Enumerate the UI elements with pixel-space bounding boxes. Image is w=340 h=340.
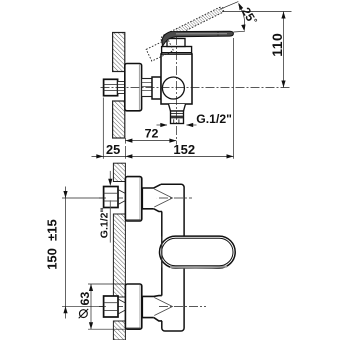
svg-text:152: 152 [173,142,195,157]
threaded pipe through wall [118,82,125,94]
collar at body inlet [152,77,161,99]
dim text dia 63 (rotated) [80,310,88,318]
top inlet centerline [99,197,192,199]
lever cap raised position (dotted outline) [146,39,173,61]
lever highlight [176,33,227,35]
wall section upper (hatched) [113,33,125,72]
G.1/2 leader bottom view [108,171,112,243]
dim 150 +-15 extensions [62,198,106,306]
svg-text:72: 72 [145,127,159,141]
outlet threaded tip G1/2 [171,111,184,124]
angle arc with arrows [238,3,245,32]
flange inner edge line [138,65,140,111]
valve sphere [162,77,184,99]
dim 110 extension top [222,11,292,13]
hex nut behind wall [104,79,118,95]
dim 25/152 extension lines [103,38,233,159]
horizontal centerline top view [101,87,292,89]
lever handle raised 25 deg (dotted, hatched) [161,7,224,44]
top inlet hex nut [104,187,126,208]
wall strip middle segment [113,214,125,297]
dim 72 line with arrows [125,139,176,143]
mixer body column [161,54,192,104]
svg-text:150 ±15: 150 ±15 [45,219,60,270]
bottom inlet cone chevron [154,298,172,316]
wall section lower (hatched) [113,101,125,138]
dim dia 63 extensions [88,284,125,329]
top escutcheon [125,177,141,221]
cartridge neck [167,39,185,47]
svg-text:63: 63 [78,292,92,306]
svg-text:G.1/2": G.1/2" [196,112,232,126]
G.1/2 leader at outlet [157,123,197,127]
angle ray 25 deg [220,2,239,10]
dim 110 line with arrows [281,12,285,88]
svg-text:25: 25 [106,142,120,157]
bottom inlet centerline [99,306,206,308]
outlet neck [169,104,186,111]
bottom inlet boss and stub [142,296,162,321]
body plate left edge between bosses [161,212,163,296]
wall strip upper segment [113,163,125,181]
angle ray horizontal [234,30,245,33]
handle pill (front view) [160,236,236,268]
wall strip bottom segment [113,321,125,340]
svg-text:110: 110 [269,33,285,57]
top inlet boss and stub [142,184,162,211]
lever handle solid (closed position) [162,31,234,46]
dim 25/152 line with arrows [92,154,234,158]
dim dia 63 line with arrows [89,284,93,329]
dim 150 +-15 line with arrows [63,187,67,319]
threaded nipple flange to body [142,79,152,97]
cartridge cap [162,47,192,55]
top inlet cone chevron [154,189,172,207]
wall flange (escutcheon side view) [125,64,142,111]
svg-text:G.1/2": G.1/2" [99,208,111,239]
vertical centerline top view [175,36,177,145]
body plate [161,184,184,331]
dim 72 extension left [124,138,126,144]
bottom inlet hex nut [104,296,126,317]
bottom escutcheon [125,284,141,329]
